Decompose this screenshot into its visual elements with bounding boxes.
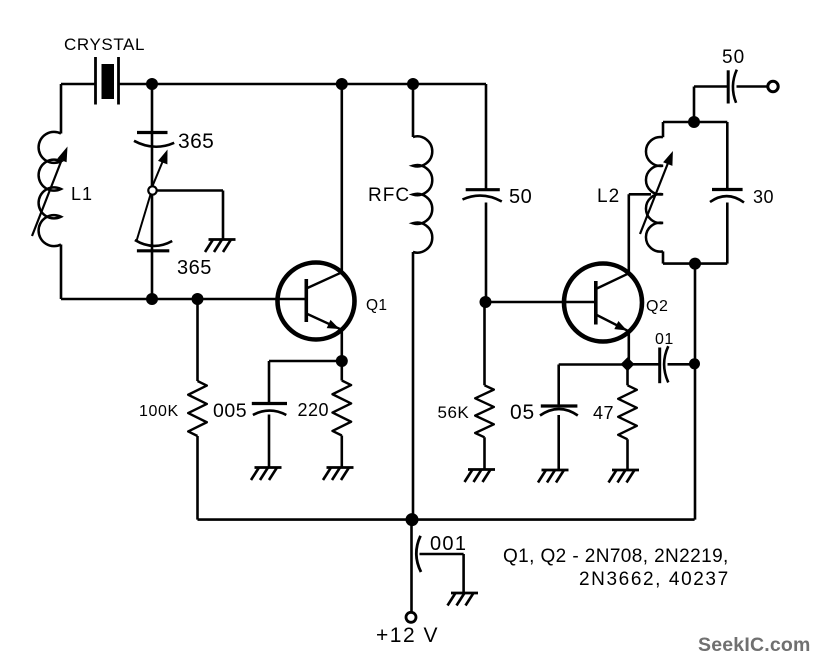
wire Q1 collector	[340, 84, 343, 272]
capacitor 001	[416, 533, 467, 593]
node output terminal	[768, 81, 778, 91]
resistor 220	[298, 361, 352, 468]
wire Q2 base	[486, 301, 596, 304]
capacitor 50 (coupling)	[463, 186, 533, 208]
wire output terminal	[737, 85, 769, 88]
svg-text:220: 220	[298, 400, 330, 420]
wire L1 bottom	[60, 245, 63, 300]
ground 56K	[468, 468, 495, 471]
crystal Y1	[64, 35, 145, 105]
node junction dot Q1 collector	[336, 78, 348, 90]
svg-text:RFC: RFC	[368, 185, 410, 206]
capacitor 30	[710, 122, 774, 264]
node dot L2 bottom	[689, 258, 701, 270]
node dot supply	[406, 513, 419, 526]
node dot tank bottom	[146, 293, 158, 305]
svg-text:56K: 56K	[438, 403, 470, 422]
capacitor 50 (output)	[722, 47, 745, 104]
svg-text:001: 001	[430, 533, 467, 555]
wire rotor to ground	[157, 191, 223, 240]
inductor RFC	[368, 136, 432, 252]
node junction dot RFC top	[407, 78, 419, 90]
wire output up	[694, 87, 728, 123]
resistor 56K	[438, 302, 494, 470]
resistor 47	[593, 364, 637, 470]
capacitor 365 upper (variable)	[134, 130, 214, 186]
svg-text:05: 05	[510, 401, 535, 424]
svg-text:50: 50	[509, 186, 532, 208]
inductor L2	[597, 122, 673, 264]
transistor Q1	[278, 263, 388, 340]
svg-text:CRYSTAL: CRYSTAL	[64, 35, 145, 54]
wire tank bottom to Q1 base	[61, 298, 306, 301]
wire Q2 emitter	[627, 331, 630, 364]
wire top bus	[119, 83, 487, 86]
svg-text:47: 47	[593, 403, 614, 423]
node dot 01 right	[689, 358, 700, 369]
wire Q2 collector to L2 tap	[629, 194, 651, 273]
wire top bus corner down	[485, 84, 488, 190]
wire +12V feed	[410, 520, 413, 612]
wire L2 top	[663, 121, 727, 124]
capacitor 05	[510, 365, 628, 471]
svg-text:01: 01	[655, 331, 674, 348]
resistor 100K	[139, 299, 207, 520]
inductor L1	[32, 132, 93, 246]
node +12V terminal	[406, 612, 416, 622]
wire left vertical	[60, 84, 63, 134]
node dot L2 top	[688, 116, 700, 128]
wire Q1 emitter	[340, 330, 343, 361]
wire L2 bottom	[663, 262, 727, 265]
svg-text:30: 30	[753, 187, 774, 207]
svg-text:L1: L1	[71, 184, 93, 204]
node dot 100K branch	[192, 293, 204, 305]
ground 005	[255, 466, 282, 469]
svg-text:100K: 100K	[139, 403, 179, 420]
node rotor pivot	[148, 186, 156, 194]
wire top-left to crystal	[61, 83, 96, 86]
wire 365 branch vertical	[151, 84, 154, 299]
svg-text:Q2: Q2	[646, 298, 668, 315]
svg-text:+12 V: +12 V	[376, 624, 439, 647]
svg-text:365: 365	[178, 130, 214, 153]
svg-text:SeekIC.com: SeekIC.com	[698, 634, 811, 656]
svg-text:Q1, Q2 - 2N708, 2N2219,: Q1, Q2 - 2N708, 2N2219,	[503, 546, 729, 567]
wire RFC bottom to bus	[412, 252, 415, 520]
ground 47	[612, 469, 639, 472]
svg-text:Q1: Q1	[366, 297, 387, 314]
node junction Q2 emitter (diamond)	[621, 357, 635, 371]
ground rotor	[209, 238, 236, 241]
svg-text:365: 365	[177, 257, 212, 279]
svg-text:2N3662, 40237: 2N3662, 40237	[579, 569, 730, 590]
node dot Q1 emitter	[336, 355, 348, 367]
transistor Q2	[564, 264, 668, 342]
svg-text:005: 005	[213, 400, 247, 422]
capacitor 01	[633, 331, 690, 383]
capacitor 365 lower (variable)	[135, 195, 212, 280]
wire right vertical	[694, 264, 697, 520]
node dot Q2 base	[480, 296, 492, 308]
wire RFC top	[412, 84, 415, 137]
ground 220	[327, 466, 354, 469]
wire bottom bus	[198, 518, 695, 521]
ground 05	[542, 469, 569, 472]
ground 001	[451, 592, 478, 595]
node junction dot top-left	[146, 78, 158, 90]
capacitor 005	[213, 361, 342, 468]
svg-text:50: 50	[722, 47, 745, 68]
svg-text:L2: L2	[597, 186, 620, 207]
